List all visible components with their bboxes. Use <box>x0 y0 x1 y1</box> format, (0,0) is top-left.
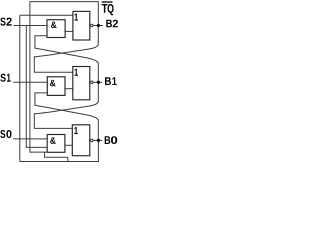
label S0 <box>0 130 5 138</box>
NOR U2 output bubble <box>91 24 94 27</box>
NOR gate U2 box <box>73 11 90 40</box>
wire AND1 second input from B1 crossing <box>35 36 98 83</box>
wire stage1 OR top input <box>20 14 73 16</box>
junction node B0 <box>97 139 100 142</box>
junction node B2 <box>97 24 100 27</box>
wire output B1 <box>93 81 102 83</box>
label S2 <box>0 18 5 26</box>
wire bus V2 <box>26 26 47 148</box>
NOR U4 output bubble <box>91 81 94 84</box>
label 1 of NOR gate U4 <box>74 69 78 76</box>
AND gate U3 box <box>47 77 65 96</box>
wire AND2 out to OR2 <box>65 88 73 90</box>
wire under AND U5 to bottom edge <box>45 152 68 161</box>
wire input S1 <box>13 81 47 83</box>
label B2 <box>106 20 112 28</box>
wire B1 down to OR3 top input crossing <box>34 82 98 128</box>
NOR gate U6 box <box>72 125 90 156</box>
wire bottom edge <box>20 140 99 161</box>
label B0 <box>105 136 111 144</box>
wire B2 down to OR2 top input crossing <box>34 26 98 73</box>
wire input S2 <box>14 25 47 27</box>
NOR gate U4 box <box>73 67 90 100</box>
AND gate U1 box <box>47 20 65 38</box>
wire AND2 second input from B0 crossing <box>35 93 98 140</box>
junction node B1 <box>97 81 100 84</box>
node TQ-bar top line <box>30 2 98 26</box>
overline of TQ <box>102 1 113 3</box>
wire AND3 out to OR3 <box>65 144 73 146</box>
NOR U6 output bubble <box>91 139 94 142</box>
label & of AND gate U5 <box>50 137 56 144</box>
wire output B0 <box>93 139 102 141</box>
label & of AND gate U1 <box>51 21 57 28</box>
label & of AND gate U3 <box>50 80 56 87</box>
label 1 of NOR gate U2 <box>74 14 78 21</box>
label 1 of NOR gate U6 <box>74 127 78 134</box>
wire input S0 <box>13 138 47 140</box>
label B1 <box>105 77 111 85</box>
label S1 <box>0 74 5 82</box>
wire output B2 <box>93 25 103 27</box>
wire bus V1 (B0 feedback up left side) <box>19 15 21 161</box>
AND gate U5 box <box>47 135 65 153</box>
wire bus V3 <box>30 2 47 153</box>
wire AND1 out to OR1 <box>65 30 73 32</box>
label TQ-bar text <box>102 4 108 13</box>
